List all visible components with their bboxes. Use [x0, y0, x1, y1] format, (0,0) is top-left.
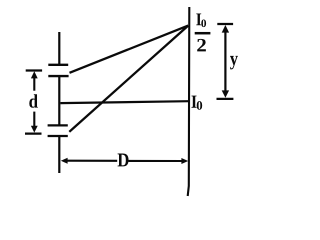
dimension y: line	[224, 32, 226, 93]
ray from slit S2 to screen point	[69, 26, 188, 132]
dimension d: upper line	[33, 77, 35, 91]
label I0: subscript 0	[197, 101, 202, 110]
slit S1 upper plate	[48, 64, 68, 66]
dimension D: right arrowhead	[181, 158, 188, 164]
slit S2 lower plate	[48, 135, 68, 137]
dimension y: up arrowhead	[222, 25, 229, 33]
axis line to I0 point	[61, 101, 189, 103]
slit S2 upper plate	[48, 124, 68, 126]
screen line	[188, 7, 190, 196]
dimension y: top tick	[217, 23, 233, 25]
dimension y: bottom tick	[217, 98, 234, 100]
dimension D: left arrowhead	[61, 158, 68, 164]
dimension d: bottom tick	[25, 132, 42, 134]
label I0/2: numerator subscript 0	[201, 19, 206, 27]
label y	[230, 56, 238, 70]
barrier middle segment	[58, 76, 60, 125]
label I0: letter I	[192, 96, 197, 108]
dimension d: lower line	[33, 112, 35, 127]
barrier top segment	[58, 32, 60, 65]
dimension D: right line	[128, 160, 182, 162]
dimension d: up arrowhead	[31, 71, 38, 78]
fraction bar of I0/2	[195, 32, 211, 35]
dimension y: down arrowhead	[222, 90, 229, 97]
label D	[118, 154, 129, 167]
dimension D: left line	[67, 160, 118, 162]
ray from slit S1 to screen point	[70, 26, 189, 73]
dimension d: down arrowhead	[31, 126, 38, 133]
slit S1 lower plate	[48, 75, 68, 77]
barrier bottom segment	[58, 136, 60, 173]
dimension d: top tick	[26, 69, 42, 71]
label d	[29, 94, 38, 108]
label I0/2: denominator 2	[197, 39, 206, 52]
label I0/2: numerator I	[196, 13, 201, 25]
